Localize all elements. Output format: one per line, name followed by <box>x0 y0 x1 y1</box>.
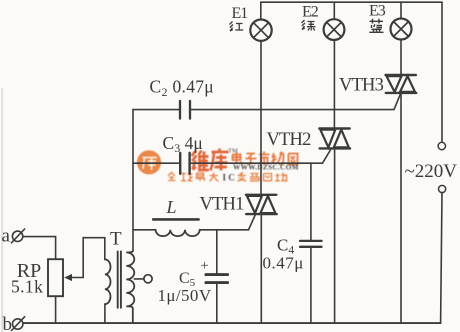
wk char wei <box>192 151 210 171</box>
wire E3 rail bottom <box>400 93 402 323</box>
wire E1 rail bottom <box>260 214 262 323</box>
thyristor VTH1 <box>246 195 277 214</box>
wire primary bottom <box>104 304 106 323</box>
svg-text:VTH1: VTH1 <box>200 195 245 215</box>
label lv (green) <box>302 20 316 31</box>
svg-text:T: T <box>110 229 122 250</box>
svg-text:E2: E2 <box>302 4 319 21</box>
svg-text:VTH2: VTH2 <box>267 130 312 150</box>
lamp E2 <box>324 19 345 40</box>
svg-text:VTH3: VTH3 <box>339 76 384 96</box>
terminal a <box>11 229 24 243</box>
wire E2 rail mid <box>333 40 335 128</box>
wire C5 branch top <box>216 230 218 273</box>
wire C2 left <box>133 109 180 111</box>
label lan (blue) <box>369 19 383 33</box>
wire C3 left <box>133 162 180 164</box>
lamp E1 <box>250 20 271 41</box>
wire top rail <box>261 1 442 3</box>
wire VTH2 gate <box>190 149 331 163</box>
logo disc <box>137 150 161 174</box>
wire C5 branch bottom <box>216 284 218 323</box>
svg-text:+: + <box>201 258 209 274</box>
svg-text:L: L <box>166 197 177 217</box>
transformer tap <box>134 278 144 280</box>
svg-text:C3 4μ: C3 4μ <box>163 133 203 155</box>
wire E3 rail mid <box>400 40 402 75</box>
wire C4 branch bottom <box>310 247 312 323</box>
wire bottom rail <box>23 322 441 324</box>
wire C4 branch top <box>310 163 312 240</box>
wire RP bottom <box>55 296 57 323</box>
svg-text:~220V: ~220V <box>405 161 458 182</box>
wire E3 rail top <box>400 2 402 18</box>
wire left rail <box>132 110 134 251</box>
wk slogan row <box>168 173 219 182</box>
svg-text:E3: E3 <box>369 3 386 20</box>
svg-text:C2 0.47μ: C2 0.47μ <box>150 77 214 99</box>
potentiometer RP <box>48 259 63 296</box>
terminal ~220V upper <box>438 142 445 149</box>
terminal ~220V lower <box>439 185 446 192</box>
wire right rail lower <box>441 193 442 324</box>
capacitor C3 <box>180 153 189 174</box>
svg-text:b: b <box>3 314 13 332</box>
capacitor C4 <box>300 241 322 247</box>
capacitor C2 <box>180 101 190 119</box>
wire wiper to primary <box>83 238 105 278</box>
wire L left <box>133 229 156 231</box>
transformer T secondary <box>126 251 134 324</box>
inductor L coil <box>156 230 200 236</box>
terminal b <box>12 317 25 331</box>
wire E1 rail top <box>260 2 262 19</box>
label hong (red) <box>230 22 244 32</box>
transformer T primary <box>105 259 111 304</box>
wire E2 rail top <box>333 2 335 19</box>
thyristor VTH2 <box>319 129 350 149</box>
wire VTH1 gate <box>200 215 256 230</box>
wire a to RP <box>23 237 56 259</box>
lamp E3 <box>391 19 412 40</box>
svg-text:1μ/50V: 1μ/50V <box>158 286 212 305</box>
wk small chars dian zi shi chang wang <box>233 152 298 166</box>
wk char ku <box>211 149 229 171</box>
capacitor C5 plates <box>206 273 228 276</box>
inductor L core <box>153 218 198 221</box>
wire VTH3 gate <box>190 94 400 110</box>
svg-text:I C: I C <box>223 173 235 183</box>
wire E2 rail bottom <box>334 149 336 324</box>
transformer T core <box>118 252 121 308</box>
wire E1 rail mid <box>260 41 262 195</box>
wire right rail upper <box>441 2 443 142</box>
RP wiper arrow <box>70 277 83 279</box>
svg-text:5.1k: 5.1k <box>11 277 43 297</box>
svg-text:E1: E1 <box>232 5 249 22</box>
svg-text:a: a <box>2 226 11 247</box>
thyristor VTH3 <box>386 75 417 93</box>
svg-text:0.47μ: 0.47μ <box>263 254 304 273</box>
scan border left <box>2 88 3 332</box>
WATERMARK <box>137 148 299 183</box>
